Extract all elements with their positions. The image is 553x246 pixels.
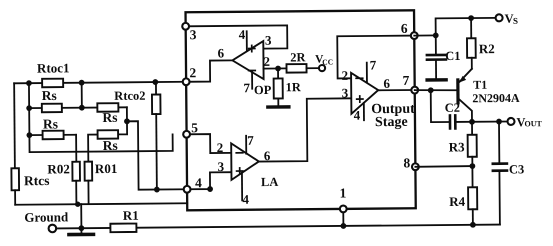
- node: ground junction: [78, 225, 84, 231]
- terminal pin 6: [411, 32, 418, 39]
- node: C3 top junction: [496, 119, 502, 125]
- wire: Rtco2 top lead: [155, 82, 157, 94]
- svg-text:2: 2: [189, 65, 196, 80]
- svg-text:CC: CC: [322, 57, 333, 66]
- svg-text:OUT: OUT: [524, 119, 542, 128]
- pin 4 power lead OP: [246, 31, 248, 50]
- svg-text:C1: C1: [445, 49, 460, 63]
- svg-text:2: 2: [341, 68, 348, 83]
- svg-text:Rtco2: Rtco2: [114, 89, 145, 103]
- wire: 1R top lead: [277, 68, 279, 78]
- resistor Rs row2 middle: [97, 103, 118, 112]
- svg-text:1: 1: [339, 185, 346, 200]
- wire: base wire terminal 7 to T1: [415, 89, 457, 92]
- terminal Vs: [496, 14, 503, 21]
- svg-text:S: S: [513, 16, 518, 26]
- svg-text:6: 6: [401, 21, 408, 36]
- pin 4 power lead OS: [363, 103, 365, 120]
- op-amp U1 Output Stage: [351, 73, 378, 114]
- node: R02 bottom dot: [75, 202, 80, 207]
- svg-text:R02: R02: [47, 161, 70, 176]
- svg-text:4: 4: [242, 192, 249, 207]
- terminal pin 2: [183, 78, 190, 85]
- node: pin1 ground junction: [340, 223, 346, 229]
- op-amp OP: [232, 41, 263, 79]
- resistor R02: [72, 162, 80, 181]
- svg-text:4: 4: [354, 108, 361, 123]
- wire: C3 top lead: [498, 122, 500, 163]
- resistor Rs row3 middle: [98, 130, 119, 139]
- svg-text:Stage: Stage: [375, 115, 408, 130]
- svg-text:2N2904A: 2N2904A: [472, 91, 520, 105]
- resistor R2: [467, 38, 476, 58]
- wire: terminal 4 to LA non-inverting input: [187, 172, 232, 189]
- svg-text:R1: R1: [123, 208, 139, 223]
- IC package box: [186, 10, 416, 210]
- wire: terminal 8 to divider: [415, 165, 472, 168]
- node: OP inverting node dot: [275, 66, 281, 72]
- T1 emitter with arrow: [471, 58, 473, 69]
- wire: row 3: [29, 134, 76, 136]
- svg-text:Rtcs: Rtcs: [24, 173, 50, 188]
- pin 7 power lead OS: [366, 63, 368, 82]
- terminal pin 1: [340, 205, 347, 212]
- wire: common line to ground symbol: [80, 204, 82, 232]
- node: left bus dot row1: [26, 80, 32, 86]
- svg-text:LA: LA: [261, 175, 278, 189]
- svg-text:2: 2: [263, 54, 270, 69]
- node: inter-row junction: [124, 118, 130, 124]
- wire: left vertical bus to terminal 5: [29, 82, 173, 152]
- svg-text:7: 7: [243, 80, 250, 95]
- node: C1 top junction: [433, 32, 439, 38]
- wire: row3 middle to R01 top: [88, 135, 98, 162]
- op-amp LA: [231, 143, 259, 180]
- terminal pin 4: [184, 186, 191, 193]
- wire: bottom common line: [15, 203, 187, 205]
- wire: LA output to Output Stage: [258, 98, 352, 161]
- wire: OP inverting input node: [264, 67, 287, 69]
- wire: Rtco2 bottom lead: [155, 114, 158, 189]
- resistor R4: [468, 187, 477, 209]
- wire: R2 top lead: [470, 18, 472, 38]
- wire: 2R to Vcc: [307, 67, 319, 69]
- wire: x82 vertical row1-row2: [81, 83, 83, 108]
- capacitor C1: [435, 35, 437, 53]
- svg-text:Rs: Rs: [103, 138, 118, 153]
- terminal pin 7: [411, 87, 418, 94]
- wire: row 2: [29, 106, 127, 109]
- svg-text:4: 4: [195, 175, 202, 190]
- resistor R01: [85, 162, 93, 181]
- svg-text:Rs: Rs: [102, 110, 117, 125]
- ground symbol below C1: [427, 78, 446, 82]
- svg-text:R01: R01: [95, 161, 118, 176]
- wire: terminal 5 to LA inverting input: [187, 134, 232, 153]
- node: row2 x82 junction: [79, 105, 85, 111]
- terminal VOUT: [507, 118, 514, 125]
- node: Rtco2 bottom junction: [154, 187, 160, 193]
- wire: R01 bottom lead: [87, 181, 89, 204]
- node: R3/R4/pin8 junction: [469, 163, 475, 169]
- wire: OS output to terminal 7: [378, 89, 414, 91]
- resistor R3: [468, 135, 477, 157]
- svg-text:R3: R3: [449, 139, 466, 154]
- wire: row2 right to row3 connector: [118, 107, 127, 134]
- svg-text:Rs: Rs: [43, 116, 58, 131]
- wire: ground rail: [56, 225, 500, 229]
- wire: R4 bottom lead: [472, 209, 474, 224]
- svg-text:7: 7: [370, 57, 377, 72]
- wire: C2 branch from base node: [431, 90, 449, 122]
- node: R2 top junction: [468, 15, 474, 21]
- svg-text:2: 2: [217, 140, 224, 155]
- wire: terminal 2 row: [14, 82, 186, 84]
- svg-text:6: 6: [218, 45, 225, 60]
- T1 collector: [459, 99, 472, 122]
- ground symbol: [69, 233, 93, 237]
- T1 base bar: [456, 80, 459, 103]
- node: collector/R3 junction: [469, 119, 475, 125]
- node: Rtco2 top junction: [152, 79, 158, 85]
- svg-text:3: 3: [190, 27, 197, 42]
- svg-text:R2: R2: [479, 41, 495, 56]
- pin 4 power lead LA: [241, 173, 243, 200]
- wire: C1 bottom lead: [435, 61, 437, 78]
- wire: feedback terminal 6 to OS inverting input: [337, 36, 414, 79]
- svg-text:C2: C2: [445, 101, 460, 115]
- wire: C3 bottom lead: [498, 172, 500, 225]
- wire: R3 top lead: [471, 122, 473, 135]
- node: left bus dot row2: [26, 105, 32, 111]
- svg-text:7: 7: [247, 133, 254, 148]
- wire: 1R bottom lead: [277, 98, 279, 105]
- terminal pin 3: [182, 23, 189, 30]
- svg-text:OP: OP: [254, 83, 272, 97]
- capacitor C3: [493, 162, 507, 165]
- svg-text:C3: C3: [509, 162, 524, 176]
- node: terminal 4 branch dot: [207, 186, 213, 192]
- svg-text:3: 3: [265, 33, 272, 48]
- wire: terminal 3 to OP + input: [186, 25, 288, 49]
- pin 7 power lead OP: [251, 71, 253, 89]
- wire: VOUT row: [457, 120, 508, 122]
- wire: terminal 6 to C1 node: [414, 34, 435, 36]
- svg-text:Ground: Ground: [24, 209, 69, 224]
- svg-text:5: 5: [191, 120, 198, 135]
- terminal Vcc: [319, 65, 325, 71]
- svg-text:8: 8: [403, 155, 410, 170]
- pin 7 power lead LA: [245, 136, 247, 154]
- svg-text:R4: R4: [449, 194, 466, 209]
- wire: up to Vs line: [436, 18, 496, 36]
- terminal pin 5: [183, 131, 190, 138]
- svg-text:Rtoc1: Rtoc1: [37, 60, 70, 75]
- svg-text:3: 3: [342, 85, 349, 100]
- svg-text:2R: 2R: [290, 50, 306, 64]
- svg-text:6: 6: [383, 76, 390, 91]
- node: left bus dot row3: [26, 132, 32, 138]
- wire: R3 bottom to R4 top: [471, 157, 473, 187]
- wire: pin 1 drop to ground rail: [342, 209, 344, 226]
- resistor Rtcs: [11, 168, 19, 190]
- wire: junction to terminal 4: [127, 121, 187, 190]
- wire: OP output to terminal 2: [186, 60, 233, 81]
- svg-text:1R: 1R: [286, 80, 302, 94]
- node: R4 ground junction: [470, 222, 476, 228]
- svg-text:3: 3: [218, 159, 225, 174]
- wire: Rtcs bottom to common line: [14, 190, 16, 204]
- wire: row3 to R02 top: [75, 135, 77, 162]
- ground symbol below 1R: [268, 105, 289, 109]
- wire: R02 bottom lead: [75, 181, 77, 204]
- terminal pin 8: [412, 163, 419, 170]
- node: row1 x82 junction: [79, 80, 85, 86]
- svg-text:4: 4: [239, 27, 246, 42]
- svg-text:T1: T1: [473, 78, 487, 92]
- node: C2 top junction: [428, 87, 434, 93]
- svg-text:Rs: Rs: [42, 88, 57, 103]
- wire: drop to Rtcs: [13, 83, 16, 168]
- svg-text:7: 7: [402, 73, 409, 88]
- resistor 1R: [274, 78, 283, 98]
